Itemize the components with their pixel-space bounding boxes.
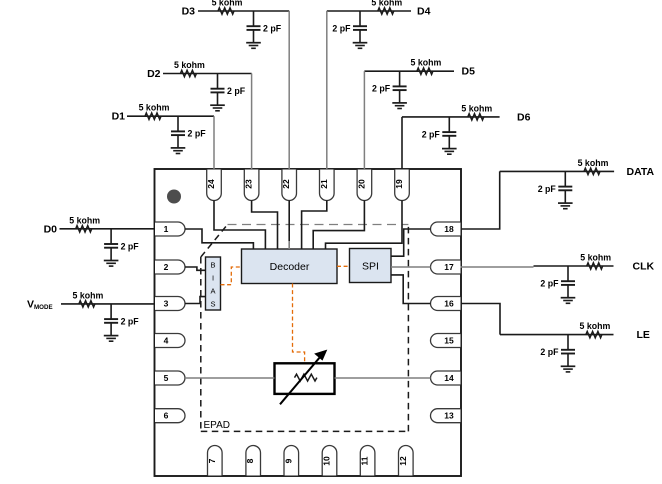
svg-text:2 pF: 2 pF bbox=[121, 241, 140, 251]
pin 19 bbox=[394, 170, 409, 201]
CLK net wire bbox=[534, 265, 614, 267]
pin 1 bbox=[155, 222, 185, 236]
pin 5 bbox=[155, 371, 185, 385]
wire D6 to pin 19 bbox=[401, 117, 403, 169]
svg-text:D6: D6 bbox=[517, 111, 531, 123]
wire pin 22 to Decoder lower gray segment bbox=[288, 241, 290, 249]
svg-text:2 pF: 2 pF bbox=[422, 129, 441, 139]
resistor R D0 5 kohm bbox=[69, 215, 100, 232]
svg-text:5 kohm: 5 kohm bbox=[371, 0, 402, 8]
svg-text:14: 14 bbox=[444, 373, 454, 383]
svg-text:10: 10 bbox=[322, 456, 332, 466]
svg-text:EPAD: EPAD bbox=[204, 420, 231, 431]
pin 4 bbox=[155, 334, 185, 348]
capacitor C D3 2 pF bbox=[247, 11, 282, 34]
ground for C D1 bbox=[171, 135, 186, 153]
pin 22 bbox=[281, 170, 296, 201]
wire pin 18 to SPI bbox=[391, 229, 431, 256]
svg-text:18: 18 bbox=[444, 224, 454, 234]
EPAD boundary right edge (dashed) bbox=[407, 225, 409, 432]
pin 10 bbox=[322, 445, 337, 475]
svg-text:5 kohm: 5 kohm bbox=[212, 0, 243, 8]
svg-text:5 kohm: 5 kohm bbox=[580, 253, 611, 263]
wire pin 3 to BIAS bbox=[185, 297, 206, 304]
svg-text:11: 11 bbox=[360, 456, 370, 465]
pin 21 bbox=[319, 170, 334, 201]
svg-text:S: S bbox=[210, 300, 215, 309]
svg-text:D3: D3 bbox=[182, 6, 196, 18]
svg-text:22: 22 bbox=[281, 179, 291, 189]
svg-text:5: 5 bbox=[164, 373, 169, 383]
control net Decoder to SPI (orange dashed) bbox=[337, 265, 350, 267]
pin 8 bbox=[245, 446, 260, 476]
ground for C D0 bbox=[104, 248, 119, 266]
svg-text:5 kohm: 5 kohm bbox=[578, 158, 609, 168]
svg-text:B: B bbox=[210, 261, 215, 270]
pin 7 bbox=[207, 446, 222, 476]
wire pin 18 to DATA net bbox=[461, 171, 500, 229]
svg-text:CLK: CLK bbox=[633, 261, 655, 273]
wire D1 to pin 24 (gray) bbox=[213, 116, 215, 169]
pin 20 bbox=[356, 170, 371, 201]
chip body U1 (QFN-24 package outline) bbox=[155, 169, 462, 476]
svg-text:5 kohm: 5 kohm bbox=[69, 215, 100, 225]
svg-text:16: 16 bbox=[444, 299, 454, 309]
svg-text:5 kohm: 5 kohm bbox=[174, 60, 205, 70]
pin 11 bbox=[360, 446, 375, 476]
pin 17 bbox=[431, 260, 461, 274]
wire pin 24 to Decoder bbox=[214, 201, 265, 250]
svg-text:12: 12 bbox=[398, 456, 408, 466]
wire pin 19 to Decoder bbox=[326, 201, 403, 250]
svg-text:19: 19 bbox=[394, 179, 404, 189]
svg-text:D2: D2 bbox=[147, 68, 161, 80]
svg-text:15: 15 bbox=[444, 336, 454, 346]
wire D5 to pin 20 (gray) bbox=[363, 71, 365, 169]
pin 3 bbox=[155, 297, 185, 311]
pin 23 bbox=[244, 170, 259, 201]
svg-text:5 kohm: 5 kohm bbox=[461, 103, 492, 113]
EPAD boundary bottom edge (dashed) bbox=[201, 430, 409, 432]
resistor R VMODE 5 kohm bbox=[72, 290, 103, 307]
D1 input net wire bbox=[127, 115, 214, 117]
svg-text:2 pF: 2 pF bbox=[372, 84, 391, 94]
svg-text:6: 6 bbox=[164, 411, 169, 421]
svg-text:A: A bbox=[210, 287, 215, 296]
wire attenuator to pin 14 (gray) bbox=[335, 377, 431, 379]
control net Decoder to attenuator (orange dashed) bbox=[293, 284, 305, 364]
svg-text:20: 20 bbox=[356, 179, 366, 189]
ground for C D4 bbox=[353, 30, 368, 48]
svg-text:DATA: DATA bbox=[627, 166, 655, 178]
pin 6 bbox=[155, 409, 185, 423]
resistor R DATA 5 kohm bbox=[578, 158, 609, 175]
pin 13 bbox=[431, 409, 461, 423]
ground for C D5 bbox=[392, 90, 407, 108]
svg-text:13: 13 bbox=[444, 411, 454, 421]
D3 input net wire bbox=[198, 10, 289, 12]
pin 18 bbox=[431, 222, 461, 236]
svg-text:2 pF: 2 pF bbox=[540, 347, 559, 357]
EPAD boundary top edge (gray dashed) bbox=[228, 224, 409, 226]
ground for C DATA bbox=[558, 190, 573, 208]
pin 9 bbox=[283, 446, 298, 476]
resistor R D3 5 kohm bbox=[212, 0, 243, 14]
svg-text:3: 3 bbox=[164, 299, 169, 309]
svg-text:1: 1 bbox=[164, 224, 169, 234]
resistor R D6 5 kohm bbox=[461, 103, 492, 120]
svg-text:9: 9 bbox=[283, 458, 293, 463]
resistor R LE 5 kohm bbox=[579, 321, 610, 338]
BIAS block bbox=[206, 257, 221, 310]
Decoder block bbox=[242, 249, 338, 284]
svg-text:5 kohm: 5 kohm bbox=[139, 103, 170, 113]
capacitor C D2 2 pF bbox=[211, 74, 246, 97]
VMODE input net wire bbox=[61, 303, 155, 305]
capacitor C D6 2 pF bbox=[422, 117, 457, 139]
svg-text:2: 2 bbox=[164, 262, 169, 272]
svg-text:D5: D5 bbox=[462, 66, 476, 78]
svg-text:21: 21 bbox=[319, 179, 329, 189]
wire pin 16 to LE net bbox=[461, 304, 501, 335]
pin-1 indicator dot bbox=[167, 190, 181, 204]
wire pin 1 to Decoder bbox=[185, 229, 253, 249]
capacitor C CLK 2 pF bbox=[540, 266, 575, 289]
svg-text:D1: D1 bbox=[112, 111, 126, 123]
capacitor C DATA 2 pF bbox=[538, 171, 573, 194]
LE net wire bbox=[500, 334, 614, 336]
svg-text:Decoder: Decoder bbox=[270, 261, 310, 273]
svg-text:2 pF: 2 pF bbox=[538, 184, 557, 194]
svg-text:5 kohm: 5 kohm bbox=[410, 58, 441, 68]
capacitor C D5 2 pF bbox=[372, 71, 407, 94]
pin 2 bbox=[155, 260, 185, 274]
wire D2 to pin 23 (gray) bbox=[251, 74, 253, 170]
svg-text:7: 7 bbox=[207, 458, 217, 463]
svg-text:2 pF: 2 pF bbox=[121, 316, 140, 326]
svg-text:SPI: SPI bbox=[362, 261, 379, 273]
wire pin 17 to CLK net (gray) bbox=[461, 266, 534, 268]
svg-text:5 kohm: 5 kohm bbox=[579, 321, 610, 331]
svg-text:17: 17 bbox=[444, 262, 454, 272]
resistor R D2 5 kohm bbox=[174, 60, 205, 77]
pin 16 bbox=[431, 297, 461, 311]
svg-text:I: I bbox=[212, 274, 214, 283]
wire pin 21 to Decoder bbox=[302, 201, 327, 250]
wire D3 to pin 22 (gray) bbox=[288, 11, 290, 169]
variable attenuator block bbox=[275, 350, 335, 404]
svg-text:D0: D0 bbox=[44, 223, 58, 235]
pin 15 bbox=[431, 334, 461, 348]
SPI block bbox=[350, 249, 392, 283]
resistor R D4 5 kohm bbox=[371, 0, 402, 14]
svg-text:24: 24 bbox=[206, 179, 216, 189]
wire pin 23 to Decoder bbox=[252, 201, 278, 250]
svg-text:23: 23 bbox=[244, 179, 254, 189]
capacitor C D4 2 pF bbox=[332, 11, 367, 34]
capacitor C LE 2 pF bbox=[540, 335, 575, 358]
pin 12 bbox=[398, 446, 413, 476]
pin 14 bbox=[431, 371, 461, 385]
wire pin 2 to BIAS bbox=[185, 267, 206, 270]
wire pin 20 to Decoder bbox=[313, 201, 364, 250]
ground for C VMODE bbox=[104, 323, 119, 341]
svg-text:8: 8 bbox=[245, 458, 255, 463]
EPAD boundary left edge (dashed) bbox=[200, 257, 202, 431]
D4 net wire bbox=[327, 10, 411, 12]
ground for C CLK bbox=[561, 285, 576, 303]
wire SPI to pin 16 bbox=[391, 275, 431, 304]
ground for C D2 bbox=[210, 92, 225, 110]
wire SPI to pin 17 (gray) bbox=[391, 266, 431, 268]
D6 net wire bbox=[402, 116, 500, 118]
capacitor C D0 2 pF bbox=[104, 229, 139, 252]
D0 input net wire bbox=[60, 228, 156, 230]
DATA net wire bbox=[500, 170, 614, 172]
svg-text:2 pF: 2 pF bbox=[263, 24, 282, 34]
EPAD boundary chamfered top-left corner (dashed) bbox=[201, 225, 228, 258]
wire D4 to pin 21 (gray) bbox=[326, 11, 328, 169]
resistor R CLK 5 kohm bbox=[580, 253, 611, 270]
wire pin 22 to Decoder bbox=[288, 201, 290, 242]
D5 net wire bbox=[364, 70, 454, 72]
svg-text:2 pF: 2 pF bbox=[188, 129, 207, 139]
wire pin 5 to attenuator (gray) bbox=[185, 377, 275, 379]
capacitor C VMODE 2 pF bbox=[104, 304, 139, 327]
ground for C LE bbox=[561, 354, 576, 372]
svg-text:LE: LE bbox=[637, 329, 650, 341]
control net BIAS to Decoder (orange dashed) bbox=[221, 267, 242, 285]
resistor R D1 5 kohm bbox=[139, 103, 170, 120]
svg-text:5 kohm: 5 kohm bbox=[72, 290, 103, 300]
resistor R D5 5 kohm bbox=[410, 58, 441, 75]
D2 input net wire bbox=[163, 73, 252, 75]
svg-text:2 pF: 2 pF bbox=[332, 24, 351, 34]
svg-text:2 pF: 2 pF bbox=[227, 86, 246, 96]
capacitor C D1 2 pF bbox=[171, 116, 206, 139]
ground for C D6 bbox=[442, 136, 457, 154]
pin 24 bbox=[206, 170, 221, 201]
ground for C D3 bbox=[246, 30, 261, 48]
svg-text:2 pF: 2 pF bbox=[540, 279, 559, 289]
svg-text:D4: D4 bbox=[417, 6, 431, 18]
svg-text:4: 4 bbox=[164, 336, 169, 346]
